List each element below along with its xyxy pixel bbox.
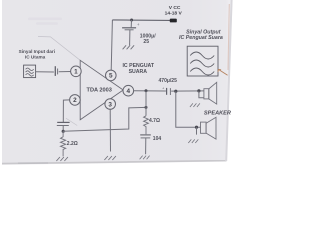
wire: pin5 to VCC rail (111, 20, 112, 70)
svg-text:25: 25 (143, 39, 149, 45)
ground (R2) (56, 157, 68, 161)
svg-text:1: 1 (74, 69, 78, 76)
wire: branch down to bottom speaker (176, 91, 201, 127)
feedback wire (63, 107, 146, 131)
svg-text:SPEAKER: SPEAKER (204, 110, 231, 116)
stub to ground (top speaker) (199, 91, 204, 98)
wire: box to input cap (36, 71, 54, 73)
resistor R2 2.2ohm (61, 131, 66, 156)
svg-text:4.7Ω: 4.7Ω (149, 118, 160, 124)
wire: cap to pin1 (59, 71, 71, 73)
output box (187, 46, 218, 76)
wire: pin2 to C2 (63, 100, 69, 122)
capacitor C3 470u/25 (166, 88, 168, 95)
pin 4 (123, 85, 134, 96)
stub to ground (bottom speaker) (196, 127, 198, 134)
crease line artifact (38, 37, 80, 61)
capacitor C4 104 (140, 134, 151, 136)
wire: pin4 to output (134, 90, 166, 92)
VCC rail (112, 19, 170, 22)
ground (C4) (140, 156, 150, 160)
junction on rail (130, 19, 133, 22)
op-amp U1 TDA2003 triangle (80, 60, 123, 120)
pin 1 (71, 66, 82, 77)
resistor R1 4.7ohm (144, 116, 149, 135)
paper bottom edge shadow (2, 161, 227, 164)
svg-text:2: 2 (73, 97, 77, 104)
svg-text:104: 104 (153, 136, 162, 142)
red arrow annotation (218, 69, 228, 75)
wire: junction down to R1 (145, 91, 147, 116)
svg-text:2.2Ω: 2.2Ω (67, 141, 78, 147)
paper background (2, 0, 233, 165)
svg-text:5: 5 (109, 73, 113, 80)
svg-text:V CC: V CC (169, 5, 181, 11)
node: feedback/R1 junction (145, 106, 148, 109)
wire: C3 to speakers (171, 90, 204, 92)
ground (bottom speaker) (188, 139, 198, 143)
capacitor C-in (54, 66, 56, 76)
svg-text:4: 4 (127, 88, 131, 95)
capacitor C2 (57, 121, 69, 123)
input box waves (26, 68, 34, 76)
svg-text:470μ/25: 470μ/25 (159, 78, 178, 84)
ground (pin3) (104, 156, 116, 160)
node: bottom speaker (195, 126, 198, 129)
ground (C1) (123, 45, 135, 49)
crease artifact 2 (66, 118, 77, 125)
pin 2 (70, 95, 81, 106)
svg-text:IC Utama: IC Utama (25, 54, 46, 59)
page edge warm tint (228, 4, 229, 70)
pin 3 (105, 99, 116, 110)
node: speaker branch (174, 90, 177, 93)
wire: pin3 to ground (109, 109, 111, 151)
svg-text:SUARA: SUARA (129, 69, 148, 75)
speaker SP1 (204, 89, 209, 99)
ground (top speaker) (190, 103, 200, 107)
svg-text:TDA 2003: TDA 2003 (87, 87, 112, 93)
VCC terminal blob (170, 19, 177, 23)
svg-text:IC Penguat Suara: IC Penguat Suara (179, 35, 223, 41)
output box waves (190, 52, 214, 75)
input source box (24, 65, 36, 78)
svg-text:14-18 V: 14-18 V (165, 11, 183, 17)
node: C2/R2 junction (62, 130, 65, 133)
bleed-through smudge top-left (28, 18, 62, 25)
node: top speaker (197, 89, 200, 92)
capacitor C1 1000u/25 (130, 20, 132, 27)
svg-text:3: 3 (108, 101, 112, 108)
pin 5 (106, 70, 117, 81)
node: output junction (145, 89, 148, 92)
speaker SP2 (201, 122, 207, 133)
paper right edge shade (226, 0, 231, 161)
